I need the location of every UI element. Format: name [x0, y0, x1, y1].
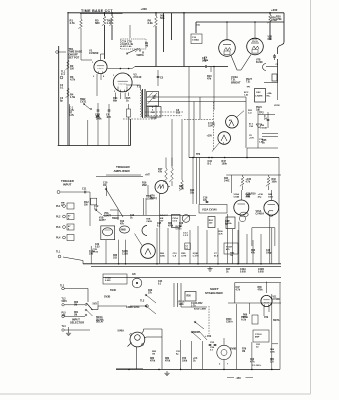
wire V4A cathode [158, 193, 161, 264]
svg-text:CV140: CV140 [133, 75, 141, 79]
svg-text:1-3.3: 1-3.3 [183, 235, 189, 237]
label bottom caps row [210, 346, 215, 352]
svg-text:C40: C40 [266, 249, 271, 252]
svg-text:1M: 1M [103, 184, 106, 187]
label row y358 [150, 357, 198, 363]
label C15 R40 [208, 157, 228, 166]
wire x246 riser [245, 97, 247, 148]
terminal TB2 [57, 191, 84, 194]
node +300 rail label [141, 7, 148, 11]
svg-text:47k: 47k [158, 171, 163, 174]
label tube row [234, 193, 274, 199]
label R65 [258, 287, 264, 292]
valve V6B box [120, 226, 130, 233]
label SW1A sigma [96, 316, 104, 324]
svg-text:C-RATE: C-RATE [255, 95, 263, 98]
wire mid verticals [156, 13, 184, 67]
wire shift low rail [228, 302, 281, 304]
svg-text:SY3A: SY3A [105, 277, 111, 280]
wire V1 anode [104, 13, 106, 59]
svg-text:0.25: 0.25 [95, 247, 100, 249]
svg-text:470k: 470k [150, 360, 156, 363]
switch SW left bank [145, 294, 156, 314]
svg-text:P300: P300 [226, 319, 232, 321]
svg-text:R60: R60 [74, 302, 79, 304]
neon lamp [132, 274, 142, 288]
node -150 label [227, 376, 253, 380]
label bottom pair a [250, 359, 255, 364]
svg-text:47k: 47k [207, 78, 212, 81]
label bottom row y358 more [152, 351, 181, 356]
label left col b [62, 313, 86, 318]
label left col extra [60, 84, 64, 103]
svg-text:TP3: TP3 [196, 154, 201, 156]
svg-text:56a: 56a [204, 59, 209, 62]
rect mid right box [224, 243, 238, 254]
switch SW6B [193, 321, 204, 334]
svg-text:0.005: 0.005 [240, 272, 246, 274]
svg-text:+15A: +15A [267, 92, 273, 95]
svg-text:+15V: +15V [249, 138, 255, 140]
node +HT label [145, 174, 150, 177]
wire V3 anode line [108, 68, 133, 70]
svg-text:4.7k: 4.7k [250, 361, 255, 364]
wire v1 grid stub [81, 28, 92, 60]
terminal PL2 [56, 214, 74, 221]
svg-text:RV24: RV24 [256, 106, 262, 109]
label V2B 6U8 [252, 37, 272, 65]
terminal TL3 [130, 300, 148, 308]
svg-text:R43: R43 [251, 249, 256, 252]
label SV3B [104, 296, 111, 299]
capacitor C8B [95, 103, 100, 146]
svg-text:1M: 1M [145, 46, 148, 48]
resistor R42b [240, 175, 252, 190]
resistor small x128 [127, 104, 131, 146]
svg-text:220k: 220k [160, 256, 166, 258]
svg-text:100p: 100p [266, 253, 272, 255]
svg-text:C25: C25 [157, 223, 162, 225]
wire R17 tops [166, 158, 172, 187]
svg-text:V/CM: V/CM [274, 105, 280, 107]
wire trig col [84, 192, 97, 226]
valve V1 [89, 49, 107, 74]
rect bottom right box [253, 330, 269, 342]
valve V4B sync sep [226, 110, 253, 128]
svg-text:PV1A: PV1A [173, 217, 179, 220]
wire right edge bottom [279, 283, 281, 369]
svg-text:4MF: 4MF [255, 336, 260, 339]
svg-text:C-176: C-176 [193, 256, 200, 258]
label AB197 [160, 214, 169, 217]
svg-text:TL4: TL4 [62, 325, 67, 328]
rect sync box [147, 107, 162, 118]
title SHIFT STABILISER [205, 287, 223, 295]
wire T1 secondary bus b [147, 101, 246, 103]
label R24 1402 [256, 106, 262, 112]
label R76 [242, 349, 247, 354]
label shift left cluster [148, 280, 163, 295]
svg-text:SV3C: SV3C [110, 289, 117, 292]
svg-text:100k: 100k [222, 163, 228, 166]
valve V2B top [247, 38, 264, 55]
svg-text:470k: 470k [258, 289, 264, 292]
label T1 sec [152, 107, 154, 112]
svg-text:6U8: 6U8 [268, 39, 273, 41]
wire grid line C6 [132, 67, 228, 69]
svg-text:4.7k: 4.7k [69, 114, 74, 117]
rotary switch SV6A [128, 331, 147, 350]
svg-text:BRIGHT: BRIGHT [231, 81, 241, 84]
wire multivib drops [106, 240, 126, 264]
resistor R10 box [191, 25, 202, 44]
svg-text:470k: 470k [165, 360, 171, 363]
valve V2A top [219, 40, 236, 57]
svg-text:+C30: +C30 [258, 194, 264, 196]
svg-text:1M: 1M [74, 305, 77, 307]
wire tp2 col [258, 110, 275, 148]
svg-text:0.015 1-4k: 0.015 1-4k [121, 45, 132, 48]
svg-text:12AT7: 12AT7 [99, 219, 106, 222]
wire V1 cathode [97, 74, 101, 96]
svg-text:R81: R81 [270, 359, 275, 361]
wire V8 drop [223, 360, 225, 370]
svg-text:9WB: 9WB [121, 230, 126, 232]
label row y252 left [89, 250, 128, 256]
svg-text:CV-21: CV-21 [176, 229, 183, 231]
wire TL1 to bus [63, 257, 83, 264]
label left col c [62, 325, 91, 331]
svg-text:CV2209: CV2209 [89, 51, 99, 55]
svg-text:120k: 120k [179, 304, 185, 306]
svg-text:680: 680 [95, 21, 100, 25]
wire drops to box bottom [70, 104, 88, 146]
svg-text:1-7k: 1-7k [191, 306, 196, 308]
valve V11 [261, 295, 280, 306]
svg-text:4.7k: 4.7k [179, 188, 184, 191]
label MB25 [61, 203, 65, 208]
terminal TL1a [60, 71, 66, 79]
label row y252 full [160, 252, 235, 258]
svg-text:C47: C47 [236, 286, 241, 289]
label C8 102 [176, 109, 181, 115]
valve V5A mid [234, 190, 249, 222]
svg-text:TL3: TL3 [140, 300, 145, 303]
svg-text:PL3: PL3 [56, 226, 61, 229]
wire left box vertical [67, 13, 69, 146]
svg-text:C5-12: C5-12 [252, 41, 259, 43]
rect multivib box [101, 226, 115, 240]
label V2A TB BRIGHT [231, 76, 241, 84]
wire shift plus rail [235, 283, 281, 304]
svg-text:27B: 27B [89, 254, 94, 256]
label C4 56a mid [204, 57, 209, 63]
svg-text:C13B: C13B [122, 254, 128, 256]
switch SW3 bank [85, 303, 98, 317]
capacitor C5 [157, 70, 164, 86]
terminal PL4 [56, 235, 74, 241]
svg-text:50B: 50B [146, 219, 150, 221]
wire mid long bus [189, 157, 279, 159]
wire right HT vertical [278, 13, 285, 83]
svg-text:12AT7: 12AT7 [208, 125, 215, 128]
svg-text:R50: R50 [187, 296, 192, 298]
svg-text:R43: R43 [272, 178, 277, 181]
wire gang dash v2 [213, 102, 215, 150]
svg-text:S13B: S13B [122, 251, 128, 253]
label right partial [0, 0, 1, 1]
label trig row [120, 215, 135, 226]
svg-text:C13: C13 [130, 215, 135, 217]
wire range box feeds [129, 25, 131, 38]
svg-text:C-1: C-1 [61, 73, 66, 76]
resistor R7a [107, 16, 114, 26]
svg-text:TL2: TL2 [62, 299, 67, 301]
label R10b 47k [207, 67, 212, 81]
label V8 pins [219, 364, 229, 366]
svg-text:PL4: PL4 [56, 237, 61, 240]
svg-text:S20A C-4MB: S20A C-4MB [194, 308, 206, 311]
svg-text:R44: R44 [224, 177, 229, 180]
wire tp2 bus [247, 112, 278, 149]
resistor R20 [179, 158, 184, 191]
svg-text:TP2: TP2 [259, 112, 264, 115]
label bottom right more [256, 344, 276, 354]
wire SV6A drop [137, 329, 163, 369]
svg-text:-150: -150 [236, 376, 242, 380]
valve V4 trig [207, 132, 231, 152]
valve V6C [142, 219, 152, 236]
label left col a [62, 299, 86, 306]
wire lower bus 2 [91, 266, 281, 268]
rect V12A box [199, 205, 227, 214]
svg-text:V1B: V1B [99, 218, 104, 220]
switch trig select [103, 182, 148, 218]
resistor R43b [266, 175, 277, 190]
label TRIG right [144, 195, 155, 215]
svg-text:C26: C26 [179, 223, 184, 225]
resistor R6 [148, 16, 158, 27]
svg-text:V12A CV140: V12A CV140 [202, 208, 217, 211]
resistor R17 pair [158, 168, 173, 182]
wire C7B drop [91, 246, 99, 264]
svg-text:C42B: C42B [258, 268, 264, 271]
svg-text:V15A: V15A [256, 210, 262, 213]
svg-text:T.B.: T.B. [246, 81, 251, 84]
svg-text:R13: R13 [120, 221, 125, 223]
svg-text:C60: C60 [250, 359, 255, 361]
wire +300 top bus [68, 12, 284, 14]
transformer T1 [126, 85, 159, 119]
svg-text:A/B-197: A/B-197 [160, 214, 169, 217]
label V3 pins [113, 75, 130, 93]
label hold off [274, 105, 280, 107]
svg-text:C42A: C42A [240, 268, 246, 271]
wire T1 secondary bus a [147, 96, 246, 98]
svg-text:56b: 56b [160, 16, 165, 20]
svg-text:1-4k: 1-4k [259, 141, 264, 144]
svg-text:SELECTOR: SELECTOR [70, 320, 84, 324]
svg-text:ECC: ECC [244, 92, 249, 94]
svg-text:MB: MB [61, 203, 65, 205]
label shift mid [241, 317, 247, 322]
wire sync risers [194, 97, 200, 158]
svg-text:V15A: V15A [234, 193, 240, 196]
svg-text:DELAY: DELAY [96, 321, 104, 324]
label +300 right [271, 8, 278, 12]
rect trig box [172, 215, 181, 228]
svg-text:+C4: +C4 [193, 357, 198, 360]
svg-text:0.1: 0.1 [185, 248, 188, 250]
label SW7b [273, 320, 280, 322]
wire riser x214 [213, 67, 215, 111]
wire V3 pins [116, 93, 129, 100]
svg-text:5V6A: 5V6A [118, 329, 125, 333]
trigger cluster [94, 205, 119, 220]
label R2 1M [66, 60, 74, 71]
svg-text:SW7b: SW7b [273, 320, 280, 322]
svg-text:4.7k: 4.7k [70, 21, 76, 25]
wire trig extra [106, 175, 141, 220]
rect small right [252, 315, 258, 324]
label mid left cluster [95, 244, 118, 260]
svg-text:144C: 144C [224, 180, 230, 183]
wire gang dashed vert [208, 306, 210, 334]
wire step bus y22 [196, 22, 284, 33]
svg-text:C11: C11 [82, 188, 87, 191]
svg-text:100k: 100k [182, 361, 188, 363]
wire v11 leads [264, 282, 269, 317]
svg-text:0.005: 0.005 [258, 272, 264, 274]
label under V3 [113, 97, 131, 103]
potentiometer RV21 [182, 215, 190, 223]
svg-text:R46B: R46B [245, 193, 251, 196]
label S6a S6b [160, 14, 165, 21]
svg-text:1M: 1M [242, 351, 245, 353]
capacitor C6 [202, 56, 215, 68]
label tp points [196, 154, 201, 156]
valve V3 [113, 73, 142, 92]
svg-text:PL1: PL1 [56, 205, 61, 208]
svg-text:CV148: CV148 [260, 127, 267, 130]
svg-text:C1/2A R52: C1/2A R52 [191, 302, 203, 305]
label C4MB SV6 [126, 306, 140, 309]
svg-text:SV3B: SV3B [104, 296, 111, 299]
wire bottom bus stub [116, 368, 143, 370]
valve V8 lamp [217, 338, 237, 360]
svg-text:1M: 1M [74, 315, 77, 317]
svg-text:TL1: TL1 [56, 251, 61, 254]
svg-text:2.2k: 2.2k [148, 21, 154, 25]
svg-text:1-4k: 1-4k [107, 21, 113, 25]
svg-text:470k: 470k [168, 225, 174, 228]
svg-text:PL5: PL5 [62, 313, 67, 315]
wire trig bus [103, 214, 196, 216]
label R3 4.7k [70, 75, 76, 82]
svg-text:1M: 1M [153, 98, 156, 100]
svg-text:+HT: +HT [145, 174, 150, 177]
ground bottom [164, 371, 169, 376]
rect delay box [103, 274, 127, 284]
svg-text:RV79: RV79 [241, 317, 247, 319]
svg-text:C52: C52 [264, 317, 269, 319]
svg-text:SW1A: SW1A [96, 316, 103, 319]
svg-text:0.005: 0.005 [105, 280, 111, 282]
resistor R1 [70, 13, 83, 29]
switch SW2 [80, 98, 92, 110]
label under bus mid [0, 0, 1, 1]
capacitor C14 right [264, 112, 269, 128]
svg-text:C50: C50 [182, 358, 187, 360]
svg-text:RV1A: RV1A [176, 225, 182, 228]
label V2A TB small [246, 78, 253, 84]
svg-text:470k: 470k [276, 18, 282, 21]
label C1 [69, 107, 74, 113]
svg-text:+15V: +15V [207, 136, 213, 138]
svg-text:1.5k: 1.5k [70, 95, 76, 99]
title TRIGGER AMPLIFIER [114, 165, 131, 173]
wire section divider [103, 276, 281, 278]
svg-text:R76: R76 [242, 349, 247, 351]
switch gang dashes [123, 112, 184, 119]
svg-text:2(1)R: 2(1)R [193, 253, 199, 255]
wire gang risers [172, 119, 182, 166]
svg-text:CV4014: CV4014 [256, 213, 265, 216]
label mid row y222 more [160, 217, 224, 237]
wire bottom mid verts [162, 329, 202, 369]
label TP1 [247, 87, 252, 89]
title TRIGGER INPUT [61, 179, 74, 186]
svg-text:5W2A: 5W2A [137, 53, 144, 57]
svg-text:PL2: PL2 [56, 216, 61, 219]
potentiometer RV30 [255, 82, 278, 102]
capacitor C4b [106, 104, 111, 146]
wire gang dash long [184, 119, 213, 121]
svg-text:R82: R82 [165, 358, 170, 360]
label input sel extra [74, 302, 79, 317]
svg-text:4.7k: 4.7k [236, 289, 241, 292]
wire riser x189 [188, 67, 190, 158]
wire sw1a arrow [135, 48, 140, 52]
label R21 [190, 189, 195, 195]
wire V2 converge [231, 55, 251, 71]
ground mid bus [207, 267, 212, 272]
svg-text:220k: 220k [270, 352, 276, 354]
label 5V6A [118, 329, 125, 333]
capacitor C9 right cluster [263, 54, 279, 82]
title INPUT SELECTOR [70, 318, 84, 325]
small box row b [185, 217, 235, 250]
svg-text:3: 3 [223, 143, 224, 145]
svg-text:C4MB SV64: C4MB SV64 [126, 306, 140, 309]
svg-text:100k: 100k [268, 197, 274, 199]
label 30A 0v32 [276, 16, 282, 22]
wire HT line trig [96, 176, 143, 178]
switch SW1A dashed range box [121, 39, 147, 57]
valve V7B [135, 234, 156, 259]
label R66 [243, 315, 249, 320]
wire right step lines [262, 134, 278, 145]
wire lower bus 1 [83, 263, 281, 265]
svg-text:TL2: TL2 [60, 286, 65, 288]
svg-text:R47: R47 [226, 268, 231, 271]
wire y148 drop [246, 148, 248, 158]
terminal TL2 [60, 286, 88, 303]
label R4 1.5k [66, 88, 76, 99]
svg-text:R30: R30 [113, 255, 118, 257]
svg-text:63.6M: 63.6M [256, 62, 262, 64]
svg-text:C41B: C41B [146, 220, 152, 223]
